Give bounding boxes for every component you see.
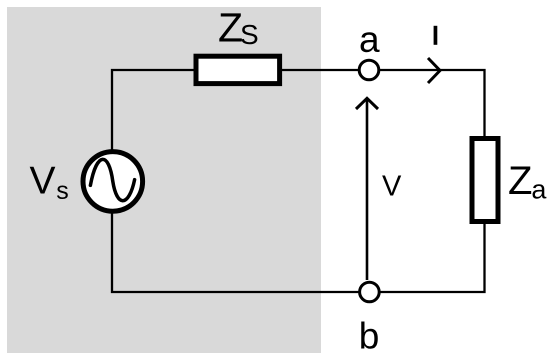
label I [434,26,438,45]
svg-text:s: s [56,177,69,205]
impedance Za [472,139,498,222]
current arrow I [428,58,440,83]
node b [360,282,380,302]
svg-text:V: V [382,170,402,202]
voltage arrow V [356,98,378,280]
label Vs [30,159,69,205]
wire Za bottom to bottom-right corner to node b [380,224,484,292]
node a [359,60,379,80]
svg-text:Z: Z [508,159,532,203]
svg-text:a: a [359,19,380,60]
label Za [508,159,547,204]
label Zs [218,4,259,50]
wire node a to top-right corner [380,70,485,138]
wire top-left (Vs top to Zs left) [112,70,194,150]
shaded source region [7,7,321,353]
svg-text:a: a [531,174,547,204]
svg-text:b: b [359,315,380,356]
wire Zs right to node a [282,69,359,71]
wire node b to bottom-left corner to Vs bottom [112,212,359,292]
impedance Zs [196,56,280,83]
svg-text:V: V [30,159,56,202]
voltage source Vs [83,152,143,212]
svg-text:S: S [240,19,259,50]
